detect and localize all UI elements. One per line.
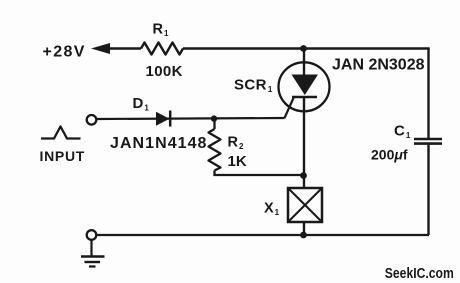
ground — [81, 257, 105, 267]
svg-text:C1: C1 — [394, 123, 411, 141]
wire right rail bottom — [427, 144, 429, 235]
terminal circle ground — [87, 230, 97, 240]
wire SCR gate — [285, 98, 294, 118]
wire right rail top — [427, 49, 429, 140]
wire bottom rail — [97, 234, 429, 236]
arrow to +28V — [91, 43, 110, 54]
X1 box — [288, 188, 322, 222]
wire R2 top lead — [213, 119, 215, 129]
svg-text:1K: 1K — [228, 153, 247, 170]
wire input to gate — [97, 118, 285, 119]
svg-text:X1: X1 — [264, 201, 280, 218]
svg-text:SeekIC.com: SeekIC.com — [385, 266, 454, 282]
capacitor C1 bottom plate — [414, 142, 442, 145]
svg-text:200μf: 200μf — [371, 147, 408, 163]
svg-text:R2: R2 — [228, 135, 244, 152]
svg-text:D1: D1 — [133, 95, 150, 113]
resistor R1 — [141, 43, 183, 55]
diode D1 triangle — [156, 112, 170, 126]
svg-text:INPUT: INPUT — [40, 148, 86, 164]
svg-text:+28V: +28V — [43, 44, 86, 61]
terminal circle input — [87, 115, 97, 125]
node junction diode to R2 — [211, 115, 217, 121]
wire arrow to R1 — [108, 47, 141, 49]
wire R2 bottom lead — [215, 171, 305, 176]
wire SCR anode — [303, 49, 305, 77]
resistor R2 — [209, 129, 221, 171]
svg-text:R1: R1 — [153, 22, 169, 39]
diode D1 cathode bar — [169, 111, 172, 127]
node junction bottom rail — [300, 232, 307, 239]
svg-text:JAN1N4148: JAN1N4148 — [110, 135, 208, 152]
SCR SCR1 triangle — [292, 75, 319, 96]
X1 box diagonals — [288, 188, 322, 222]
SCR SCR1 circle — [279, 62, 330, 111]
svg-text:100K: 100K — [146, 63, 183, 80]
node junction R2 to cathode line — [300, 172, 307, 179]
svg-text:SCR1: SCR1 — [234, 76, 273, 94]
wire X1 bottom — [303, 222, 305, 235]
SCR SCR1 cathode bar — [292, 96, 317, 99]
wire R1 to top-right corner — [183, 47, 430, 49]
capacitor C1 top plate — [414, 138, 442, 141]
wire SCR cathode down to X1 — [303, 97, 305, 188]
input pulse symbol — [41, 127, 81, 139]
svg-text:JAN 2N3028: JAN 2N3028 — [332, 57, 425, 74]
wire ground stem — [90, 240, 92, 257]
node junction top of SCR — [300, 45, 307, 52]
